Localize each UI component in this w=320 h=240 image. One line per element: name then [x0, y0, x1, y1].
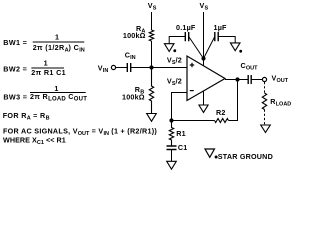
wire feedback from output	[229, 80, 238, 121]
wire COUT to VOUT	[251, 79, 262, 81]
terminal VIN	[98, 64, 116, 75]
ground C1	[167, 161, 177, 169]
ground RLOAD	[261, 125, 271, 133]
svg-text:1µF: 1µF	[214, 23, 228, 32]
svg-text:BW1 =: BW1 =	[3, 38, 27, 47]
svg-text:C1: C1	[178, 143, 188, 152]
node feedback junction	[169, 118, 173, 122]
capacitor CIN	[125, 51, 136, 73]
power VS left	[148, 1, 157, 30]
svg-text:0.1µF: 0.1µF	[176, 23, 196, 32]
power VS right	[200, 1, 209, 66]
legend star ground	[205, 149, 273, 161]
ground star left	[164, 44, 176, 52]
wire VIN to CIN	[116, 67, 128, 69]
resistor R1	[169, 121, 186, 147]
svg-text:1: 1	[54, 84, 58, 93]
wire R2 to feedback node	[172, 120, 215, 122]
capacitor COUT	[241, 61, 259, 84]
node supply junction	[201, 56, 205, 60]
resistor RA	[123, 24, 154, 41]
node output junction	[235, 77, 239, 81]
svg-text:R1: R1	[176, 129, 186, 138]
wire RA to input node	[151, 41, 153, 68]
wire output	[225, 79, 248, 81]
svg-text:WHERE XC1 << R1: WHERE XC1 << R1	[3, 136, 66, 147]
svg-text:FOR RA = RB: FOR RA = RB	[3, 111, 50, 122]
svg-text:1: 1	[55, 33, 59, 42]
node input junction	[149, 65, 153, 69]
svg-text:1: 1	[44, 59, 48, 68]
capacitor 1uF	[204, 23, 236, 59]
ground star right	[230, 43, 242, 53]
wire op-amp - input	[172, 93, 188, 121]
svg-text:100kΩ: 100kΩ	[122, 92, 145, 101]
wire C1 to ground	[171, 150, 173, 162]
op-amp U1	[187, 56, 225, 101]
svg-text:R2: R2	[216, 108, 226, 117]
wire CIN to op-amp + input	[131, 67, 187, 69]
formula BW2	[3, 59, 66, 77]
svg-text:2π R1 C1: 2π R1 C1	[31, 68, 66, 77]
terminal VOUT	[262, 74, 288, 85]
resistor RLOAD	[262, 82, 291, 125]
ground RB	[147, 114, 157, 122]
capacitor 0.1uF	[169, 23, 203, 59]
formula BW1	[3, 33, 84, 54]
formula BW3	[3, 84, 87, 103]
resistor R2	[215, 108, 229, 123]
svg-text:BW2 =: BW2 =	[3, 65, 27, 74]
capacitor C1	[167, 143, 188, 152]
ground op-amp	[199, 91, 208, 112]
svg-text:2π (1/2RA) CIN: 2π (1/2RA) CIN	[33, 43, 85, 54]
resistor RB	[122, 68, 154, 114]
svg-text:STAR GROUND: STAR GROUND	[218, 152, 273, 161]
svg-text:BW3 =: BW3 =	[3, 93, 27, 102]
svg-text:100kΩ: 100kΩ	[123, 31, 146, 40]
